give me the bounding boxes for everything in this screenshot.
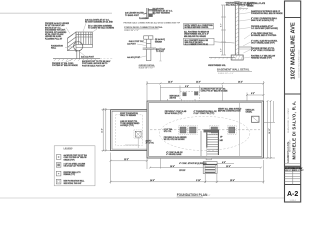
svg-text:GALV. POST CAP: GALV. POST CAP <box>129 40 145 43</box>
svg-text:WALL: WALL <box>51 47 57 50</box>
svg-text:MICHELE DI SALVO, R.A.: MICHELE DI SALVO, R.A. <box>291 100 296 159</box>
svg-text:1027 MADELINE AVE: 1027 MADELINE AVE <box>291 22 297 80</box>
svg-text:9'-8": 9'-8" <box>185 86 189 88</box>
svg-text:4" GRAVEL BASE: 4" GRAVEL BASE <box>166 153 182 156</box>
svg-text:3000 PSI AT 28 DAYS (TYP): 3000 PSI AT 28 DAYS (TYP) <box>251 19 275 22</box>
svg-text:AT 16"OC: AT 16"OC <box>146 142 155 145</box>
svg-text:12'-2": 12'-2" <box>124 159 129 161</box>
svg-text:4" CONC. STOOP W/ (3) RISERS: 4" CONC. STOOP W/ (3) RISERS <box>179 162 207 165</box>
svg-text:CONC FTG 36" BELOW GRADE: CONC FTG 36" BELOW GRADE <box>201 90 229 93</box>
svg-text:FOOTING 36" BELOW GRADE: FOOTING 36" BELOW GRADE <box>52 64 79 67</box>
svg-text:GRADE: GRADE <box>247 4 254 7</box>
svg-text:13'-6": 13'-6" <box>226 166 231 168</box>
svg-text:W/ STL COL AS SHOWN: W/ STL COL AS SHOWN <box>164 138 185 141</box>
svg-text:18'-10": 18'-10" <box>269 128 271 134</box>
svg-text:TO JOISTS W/ GALV. SCREWS: TO JOISTS W/ GALV. SCREWS <box>88 27 115 30</box>
svg-text:SEE DETAIL THIS SHT: SEE DETAIL THIS SHT <box>64 182 83 185</box>
svg-text:AS REQD (TYP): AS REQD (TYP) <box>120 124 134 127</box>
svg-text:O.C. EACH WAY (VERT+HORIZ): O.C. EACH WAY (VERT+HORIZ) <box>251 27 278 30</box>
svg-text:TO BAND JOIST: TO BAND JOIST <box>125 14 140 17</box>
svg-text:MIN. BELOW FIN. GRADE: MIN. BELOW FIN. GRADE <box>184 35 207 38</box>
svg-text:ALL LUMBER DOUG FIR #2: ALL LUMBER DOUG FIR #2 <box>185 43 208 46</box>
svg-text:4x4 ACQ POST: 4x4 ACQ POST <box>81 56 95 59</box>
svg-text:POST W/ GALV. POST CAP: POST W/ GALV. POST CAP <box>82 64 106 67</box>
svg-text:PROVIDE GALV. CONNECTORS AT AL: PROVIDE GALV. CONNECTORS AT ALL WOOD CON… <box>124 21 181 24</box>
svg-text:4'-0": 4'-0" <box>222 161 226 164</box>
svg-text:14'-0": 14'-0" <box>150 179 155 182</box>
svg-text:3'-10": 3'-10" <box>196 180 201 182</box>
svg-text:18'-4": 18'-4" <box>170 165 175 168</box>
svg-text:14'-0": 14'-0" <box>196 81 201 84</box>
svg-text:W/ JOIST HANGERS AT EA. END: W/ JOIST HANGERS AT EA. END <box>85 21 114 24</box>
svg-text:SC: 1/4": SC: 1/4" <box>204 195 211 197</box>
svg-text:MRK BY APP: MRK BY APP <box>293 169 304 172</box>
svg-text:ON 24"x24"x12" FOOTING: ON 24"x24"x12" FOOTING <box>64 165 86 168</box>
svg-text:A-2: A-2 <box>287 191 298 198</box>
svg-text:STOOP: STOOP <box>179 170 186 172</box>
svg-text:SCALE: 3/4" = 1'-0": SCALE: 3/4" = 1'-0" <box>218 72 234 75</box>
svg-text:1 OF 4: 1 OF 4 <box>290 200 297 202</box>
svg-text:FLASHING: FLASHING <box>139 17 149 20</box>
svg-text:8'-2": 8'-2" <box>251 93 255 95</box>
svg-text:16'-4": 16'-4" <box>238 81 243 84</box>
svg-text:ABOVE: ABOVE <box>170 97 177 100</box>
svg-text:GLEN ROCK NEW JERSEY 07452: GLEN ROCK NEW JERSEY 07452 <box>299 50 301 78</box>
svg-text:REMAIN (TYP): REMAIN (TYP) <box>64 173 76 176</box>
svg-text:GRADE (TYP): GRADE (TYP) <box>64 158 75 161</box>
svg-text:GIRDER: GIRDER <box>155 41 163 43</box>
svg-text:CRAWL: CRAWL <box>246 111 253 114</box>
svg-text:IN GRAVEL BED AT FOOTING: IN GRAVEL BED AT FOOTING <box>251 34 277 37</box>
svg-text:4x4 ACQ POST: 4x4 ACQ POST <box>127 56 141 59</box>
svg-text:ON 4" GRAVEL BASE (TYP): ON 4" GRAVEL BASE (TYP) <box>251 42 275 45</box>
svg-text:GLENROTH·A AVE.: GLENROTH·A AVE. <box>287 141 290 163</box>
svg-text:W/ JOIST HANGERS: W/ JOIST HANGERS <box>153 12 171 15</box>
svg-text:STL COL: STL COL <box>164 131 173 133</box>
svg-text:4x4 POST: 4x4 POST <box>127 43 136 46</box>
svg-text:12'-6": 12'-6" <box>168 82 173 84</box>
svg-text:W/ 6x6 W.W.M. (TYP): W/ 6x6 W.W.M. (TYP) <box>165 113 183 115</box>
svg-text:8"x16" CONC FTG (TYP): 8"x16" CONC FTG (TYP) <box>194 113 215 115</box>
svg-text:BEFORE CONSTRUCTION: BEFORE CONSTRUCTION <box>218 111 241 113</box>
svg-text:FLASHING FULL HT: FLASHING FULL HT <box>45 37 63 40</box>
svg-text:IN FIELD BEFORE CONSTR.: IN FIELD BEFORE CONSTR. <box>185 27 210 29</box>
svg-text:FINISHED GRADE (TYP): FINISHED GRADE (TYP) <box>251 57 272 60</box>
svg-text:WALL TO REMAIN: WALL TO REMAIN <box>120 114 136 117</box>
svg-text:FOUNDATION WALL BELOW GRADE: FOUNDATION WALL BELOW GRADE <box>251 12 283 15</box>
svg-text:BASEMENT WALL DETAIL: BASEMENT WALL DETAIL <box>217 68 250 72</box>
svg-text:15'-4": 15'-4" <box>230 179 235 182</box>
svg-text:8"x16" CONC. FOOTING W/: 8"x16" CONC. FOOTING W/ <box>251 50 275 52</box>
svg-text:UNDISTURBED SOIL: UNDISTURBED SOIL <box>208 65 227 67</box>
svg-text:13'-8": 13'-8" <box>102 128 104 133</box>
svg-text:GLEN ROCK, N.J. 07452: GLEN ROCK, N.J. 07452 <box>288 108 290 133</box>
